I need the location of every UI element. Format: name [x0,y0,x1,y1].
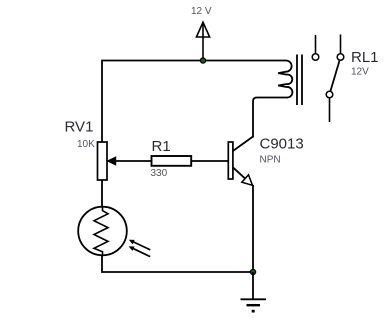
relay switch right contact circle [337,54,344,61]
wire R1 to transistor base [191,160,228,162]
relay core lines [297,55,302,106]
svg-text:R1: R1 [152,138,171,155]
relay RL1 coil [253,60,292,101]
relay switch left contact circle [312,54,319,61]
transistor collector line [233,137,253,152]
svg-text:NPN: NPN [260,155,281,166]
LDR light arrow 2 [131,248,150,257]
wire LDR bottom + bottom rail to ground junction [102,255,253,272]
node: junction dot at 12V rail [200,58,205,63]
relay switch common contact circle [326,91,333,98]
power 12V arrow [196,22,209,60]
node: ground junction dot [250,269,255,274]
relay switch right terminal stub [340,35,342,54]
RV1 wiper arrow [108,157,116,165]
resistor R1 body [152,156,192,166]
LDR zigzag resistor element [94,207,108,256]
relay switch left terminal stub [315,35,317,54]
transistor emitter line [233,167,253,186]
potentiometer RV1 body [98,142,108,180]
LDR body circle [78,207,127,256]
svg-text:10K: 10K [77,139,95,150]
svg-text:C9013: C9013 [260,136,304,153]
relay switch lever [330,60,339,91]
svg-text:RL1: RL1 [351,49,379,66]
wire top rail and left rail (one corner polyline) [102,61,285,143]
LDR light arrow 1 [132,241,151,250]
svg-text:RV1: RV1 [65,119,94,136]
transistor emitter open arrowhead [242,175,253,186]
wire collector up to relay coil [252,101,254,138]
ground symbol [241,272,267,313]
relay switch bottom stub [329,98,331,122]
wire wiper to R1 [115,160,152,162]
transistor Q1 C9013 base bar [228,142,233,179]
wire emitter down to ground junction [252,185,254,272]
svg-text:330: 330 [151,168,168,179]
wire RV1 bottom to LDR [101,180,103,207]
svg-text:12V: 12V [351,67,369,78]
svg-text:12 V: 12 V [191,6,212,17]
